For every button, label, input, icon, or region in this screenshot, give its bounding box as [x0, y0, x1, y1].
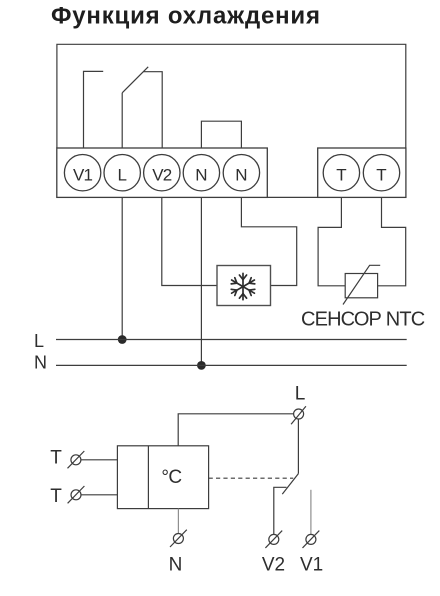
- svg-text:T: T: [336, 165, 346, 184]
- terminal block right: [318, 148, 406, 197]
- wire V1 stub (open hook): [84, 71, 104, 148]
- dashed mechanical link: [209, 477, 294, 479]
- slash T2: [68, 486, 85, 503]
- terminal circle L: [294, 409, 304, 419]
- relay switch fixed contact: [143, 72, 162, 148]
- N rail: [56, 364, 407, 366]
- svg-text:V1: V1: [300, 555, 323, 576]
- junction dot on N rail: [197, 361, 206, 370]
- svg-text:L: L: [34, 331, 44, 351]
- thermostat box: [117, 446, 208, 509]
- NTC sensor body: [345, 274, 377, 298]
- svg-text:N: N: [195, 165, 207, 184]
- snowflake icon: [231, 273, 255, 299]
- wire N bridge: [201, 121, 241, 148]
- wire N2 to cooler right side: [241, 197, 296, 285]
- svg-text:N: N: [235, 165, 247, 184]
- wire L up to switch: [121, 93, 123, 148]
- terminal block left: [57, 148, 267, 197]
- slash L: [291, 406, 306, 424]
- slash V2: [265, 531, 282, 548]
- terminal T (left): [323, 155, 359, 191]
- svg-text:T: T: [50, 448, 62, 469]
- terminal circle N: [173, 534, 183, 544]
- cooler box: [217, 266, 271, 306]
- svg-text:N: N: [34, 353, 47, 373]
- L rail: [56, 339, 407, 341]
- switch contact to V2: [274, 487, 287, 534]
- junction dot on L rail: [118, 335, 127, 344]
- wire T2 to sensor: [378, 197, 406, 285]
- svg-text:V2: V2: [152, 165, 172, 184]
- wire V1 open (gray): [310, 490, 312, 534]
- wire thermostat top to L terminal: [178, 414, 293, 446]
- svg-text:T: T: [376, 165, 386, 184]
- svg-text:L: L: [117, 165, 126, 184]
- terminal row bottom connector: [267, 196, 317, 198]
- terminal N (4th): [183, 155, 219, 191]
- terminal circle T2: [71, 490, 81, 500]
- terminal T (right): [363, 155, 399, 191]
- svg-text:°C: °C: [161, 467, 181, 488]
- wire N terminal down to N rail: [200, 197, 202, 365]
- wire T2 to thermostat: [81, 494, 117, 496]
- svg-text:N: N: [169, 555, 183, 576]
- terminal V1: [64, 155, 100, 191]
- slash T1: [68, 451, 85, 468]
- svg-text:СЕНСОР NTC: СЕНСОР NTC: [301, 308, 425, 330]
- svg-text:Функция охлаждения: Функция охлаждения: [51, 3, 321, 30]
- wire T1 to sensor: [318, 197, 345, 285]
- wire N gray from thermostat: [177, 509, 179, 534]
- terminal V2: [144, 155, 180, 191]
- wire T1 to thermostat: [81, 459, 118, 461]
- svg-text:V2: V2: [262, 555, 285, 576]
- terminal N (5th): [223, 155, 259, 191]
- slash N: [170, 530, 187, 547]
- wire V2 down to cooler: [162, 197, 217, 285]
- relay switch blade: [122, 67, 148, 93]
- terminal L: [104, 155, 140, 191]
- switch blade (bottom): [282, 474, 298, 495]
- terminal circle T1: [71, 455, 81, 465]
- svg-text:V1: V1: [73, 165, 93, 184]
- svg-text:L: L: [295, 384, 306, 405]
- NTC sensor diagonal stroke: [343, 265, 380, 304]
- wire L down to switch pivot: [297, 419, 299, 474]
- thermostat divider: [147, 446, 149, 509]
- slash V1: [303, 531, 320, 548]
- device outline box: [57, 44, 406, 148]
- svg-text:T: T: [50, 486, 62, 507]
- wire L terminal down to L rail: [121, 197, 123, 339]
- terminal circle V1: [306, 534, 316, 544]
- terminal circle V2: [269, 534, 279, 544]
